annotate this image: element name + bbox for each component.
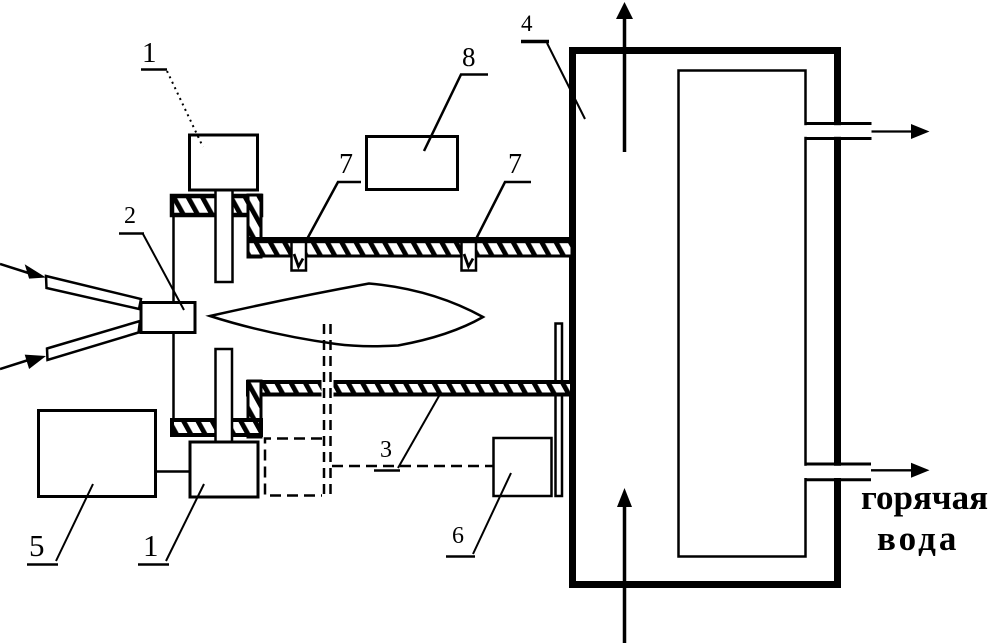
svg-text:5: 5 (29, 528, 45, 563)
label 7 (right) (475, 149, 531, 241)
inlet arrow (lower) (0, 355, 46, 369)
label 4 (521, 11, 585, 119)
igniter 7 (right) (462, 241, 477, 271)
svg-text:1: 1 (142, 37, 157, 69)
svg-text:горячая: горячая (861, 478, 988, 517)
lower step column (248, 381, 261, 437)
label 1 (bottom) (138, 484, 204, 565)
svg-text:7: 7 (508, 149, 522, 180)
label 6 (446, 473, 511, 557)
dashed signal line to box 6 (332, 465, 493, 468)
svg-text:вода: вода (877, 519, 959, 558)
hot water label (861, 478, 988, 558)
svg-text:4: 4 (521, 11, 533, 36)
control unit box 8 (367, 137, 458, 190)
svg-text:8: 8 (462, 42, 476, 72)
svg-text:2: 2 (124, 203, 136, 229)
label 3 (374, 396, 439, 471)
sensor box 6 (494, 438, 552, 496)
svg-text:1: 1 (143, 528, 159, 563)
upper wall top border (247, 237, 573, 243)
gap in lower wall at probe (322, 377, 334, 398)
label 1 (top) (141, 37, 203, 147)
flame (210, 284, 483, 347)
ignition unit box 1 (bottom) (190, 442, 258, 497)
water tank inner rectangle (679, 71, 806, 557)
vertical baffle plate near boiler wall (556, 324, 563, 497)
wire box5 to box1 (156, 470, 190, 473)
label 2 (119, 203, 184, 310)
lower-left hatched wall segment (172, 420, 261, 435)
igniter 7 (left) (292, 241, 307, 271)
dashed box (fuel pump outline) (265, 439, 322, 496)
fuel pump box 5 (39, 411, 156, 497)
upper-left hatched wall segment (172, 196, 261, 215)
svg-text:7: 7 (339, 149, 353, 180)
bottom outlet pipe channel (804, 464, 871, 480)
svg-text:6: 6 (452, 523, 464, 549)
fuel supply tube (upper) (46, 276, 141, 309)
flame sensor unit box 1 (top) (190, 135, 258, 190)
probe dashed lines (324, 324, 331, 496)
inlet arrow (upper) (0, 264, 46, 279)
upper electrode rod (216, 190, 233, 282)
burner nozzle 2 (141, 303, 195, 333)
upper step column (248, 195, 261, 257)
top outlet pipe channel (804, 124, 872, 139)
top outlet arrow (872, 124, 930, 139)
label 5 (27, 484, 93, 565)
svg-text:3: 3 (380, 437, 392, 463)
lower electrode rod (216, 349, 233, 442)
label 8 (424, 42, 488, 151)
lower long hatched wall (248, 382, 572, 395)
bottom outlet arrow (871, 463, 930, 478)
bottom flow arrow into boiler (617, 488, 632, 643)
top flow arrow through boiler (616, 2, 633, 152)
boiler vessel 4 outer shell (573, 51, 838, 585)
air supply tube (lower) (47, 321, 140, 360)
upper long hatched wall (248, 239, 572, 256)
label 7 (left) (306, 149, 361, 241)
chamber left wall line (172, 216, 175, 419)
